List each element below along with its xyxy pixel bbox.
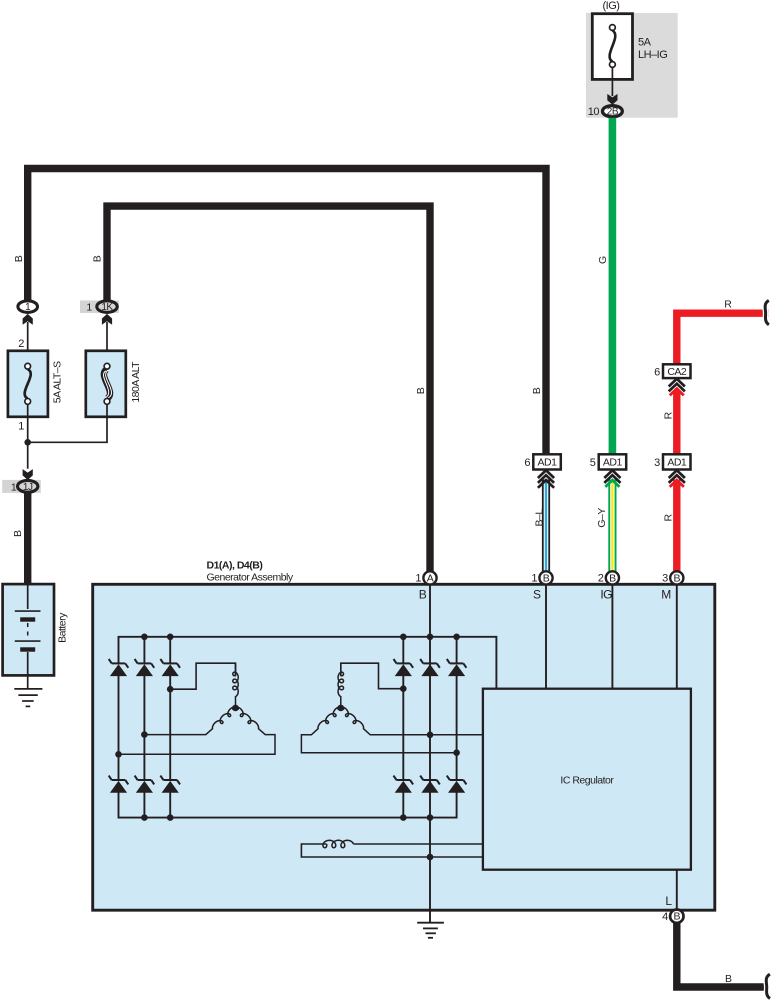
svg-text:1J: 1J: [23, 482, 33, 493]
svg-text:S: S: [533, 588, 541, 602]
svg-text:G: G: [597, 256, 609, 264]
svg-text:B: B: [674, 911, 681, 923]
svg-text:Generator Assembly: Generator Assembly: [207, 572, 294, 584]
svg-text:B: B: [543, 573, 550, 585]
svg-text:B: B: [531, 387, 543, 394]
svg-text:LH–IG: LH–IG: [638, 49, 667, 61]
svg-text:5A ALT–S: 5A ALT–S: [52, 361, 64, 403]
svg-text:1: 1: [18, 421, 24, 433]
svg-text:180A ALT: 180A ALT: [130, 361, 142, 403]
svg-text:B: B: [415, 387, 427, 394]
svg-text:1K: 1K: [101, 302, 113, 313]
svg-text:AD1: AD1: [603, 457, 623, 469]
svg-text:5: 5: [590, 457, 596, 469]
svg-text:1: 1: [86, 302, 92, 314]
svg-text:1: 1: [531, 573, 537, 585]
svg-text:R: R: [724, 299, 732, 311]
svg-text:3: 3: [662, 573, 668, 585]
svg-text:B: B: [725, 973, 732, 985]
svg-text:CA2: CA2: [667, 366, 687, 378]
svg-text:B–L: B–L: [533, 509, 545, 527]
svg-text:6: 6: [654, 366, 660, 378]
svg-text:B: B: [13, 255, 25, 262]
svg-text:B: B: [92, 255, 104, 262]
svg-text:2B: 2B: [607, 107, 619, 118]
svg-text:2: 2: [18, 338, 24, 350]
svg-text:R: R: [663, 513, 675, 521]
svg-text:D1(A), D4(B): D1(A), D4(B): [207, 560, 263, 572]
svg-text:AD1: AD1: [538, 457, 558, 469]
svg-text:3: 3: [654, 457, 660, 469]
svg-text:4: 4: [662, 911, 668, 923]
svg-text:B: B: [674, 573, 681, 585]
svg-text:AD1: AD1: [667, 457, 687, 469]
svg-text:L: L: [665, 894, 672, 908]
svg-text:B: B: [419, 588, 427, 602]
svg-text:B: B: [12, 530, 24, 537]
svg-text:1: 1: [415, 573, 421, 585]
svg-text:5A: 5A: [638, 37, 652, 49]
svg-text:1: 1: [11, 481, 17, 493]
svg-text:G–Y: G–Y: [596, 508, 608, 528]
svg-text:A: A: [427, 573, 434, 585]
svg-text:6: 6: [524, 457, 530, 469]
svg-text:(IG): (IG): [603, 0, 620, 12]
svg-text:IC Regulator: IC Regulator: [560, 774, 614, 786]
svg-text:R: R: [663, 411, 675, 419]
svg-text:B: B: [609, 573, 616, 585]
svg-text:Battery: Battery: [57, 612, 69, 643]
svg-text:M: M: [661, 588, 671, 602]
svg-text:IG: IG: [600, 588, 612, 602]
svg-text:10: 10: [588, 106, 600, 118]
svg-text:2: 2: [598, 573, 604, 585]
